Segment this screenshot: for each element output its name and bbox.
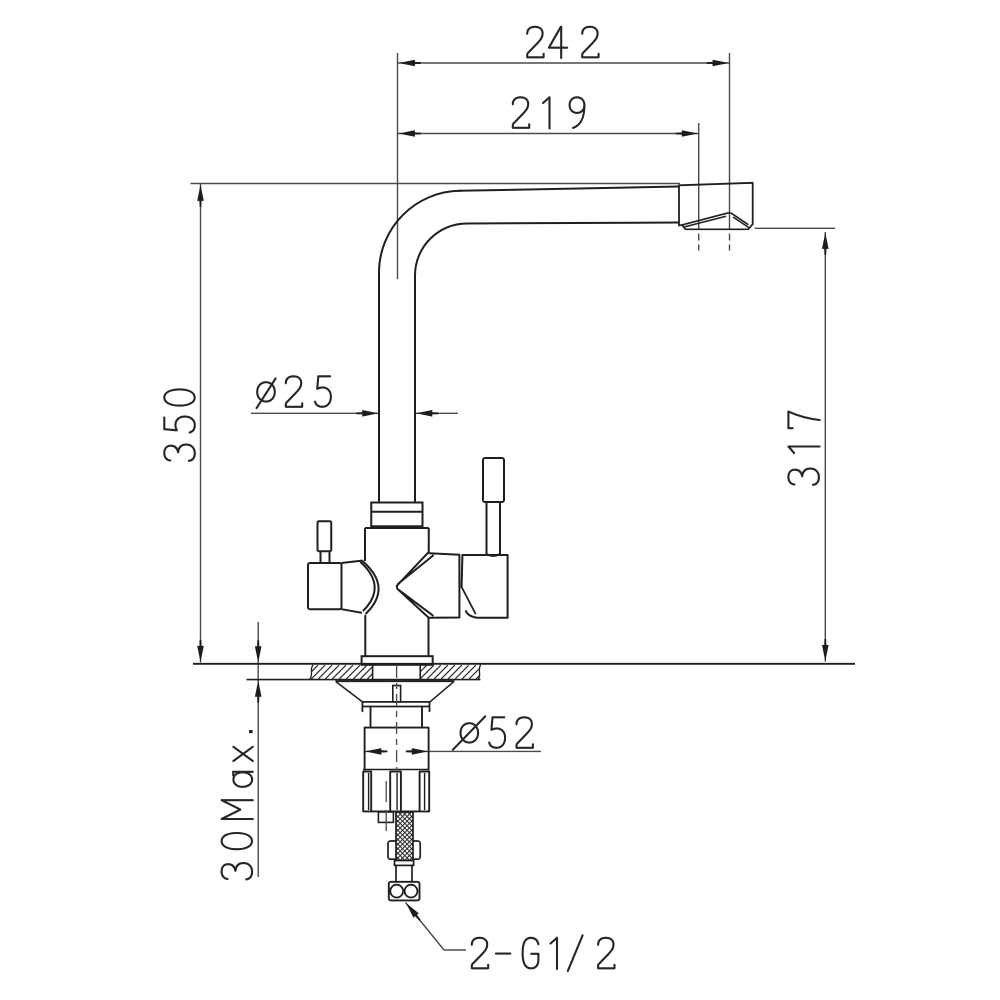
dimension text 2-G1/2	[472, 935, 615, 971]
main centerline	[396, 666, 398, 770]
right handle lever	[483, 458, 504, 502]
spout head ridge	[682, 213, 748, 225]
dimension text o52	[461, 717, 533, 748]
body left edge lower	[364, 615, 366, 656]
right handle body	[462, 555, 508, 618]
mounting flange left diagonal	[336, 682, 363, 702]
dimension text 30Max.	[222, 730, 253, 879]
counter hatch right break edge	[479, 665, 481, 679]
right boss chevron lower	[397, 586, 433, 618]
counter hatch left	[311, 665, 318, 672]
left handle bottom slant	[342, 609, 363, 613]
riser pipe right edge	[414, 276, 416, 503]
center stud	[393, 686, 401, 702]
castle nut	[363, 772, 371, 812]
collar	[371, 503, 422, 527]
mounting bracket	[362, 702, 429, 712]
body right edge upper	[428, 528, 430, 552]
spout bottom line	[467, 223, 679, 224]
dimension 219 line	[398, 133, 699, 135]
shank cylinder	[365, 728, 429, 770]
shank cylinder bottom	[363, 769, 430, 771]
riser pipe left edge	[378, 273, 380, 503]
hose connector right circle	[405, 885, 418, 898]
spout outer curve	[379, 191, 461, 273]
dimension text 317	[788, 412, 819, 485]
mounting flange line	[335, 680, 454, 682]
dimension 242 extension line right	[729, 53, 731, 230]
hose connector left circle	[390, 885, 403, 898]
mounting flange right diagonal	[430, 682, 454, 702]
side hose stub	[378, 812, 393, 822]
counter hatch right	[420, 665, 427, 672]
counter hatch left break edge	[310, 665, 313, 679]
dimension 317 extension line top	[755, 227, 836, 229]
stub centerline	[385, 781, 387, 836]
left handle stem	[321, 551, 330, 563]
o52 slash extension	[453, 716, 485, 749]
dimension o25 line left	[251, 412, 379, 414]
spout head centerline dashes	[698, 234, 700, 251]
counter hole walls	[372, 665, 374, 680]
left boss outer curve	[362, 561, 379, 614]
body left edge upper	[364, 528, 366, 561]
braided hose	[396, 812, 413, 860]
escutcheon	[362, 656, 433, 665]
hose hex fitting	[388, 841, 420, 859]
left boss inner curve	[361, 563, 375, 611]
right handle stem	[487, 502, 501, 556]
counter bottom line	[247, 679, 481, 681]
dimension o25 line right	[416, 412, 459, 414]
dimension text 219	[513, 97, 585, 128]
dimension 350 extension line top	[191, 183, 681, 185]
spout top line	[459, 187, 679, 191]
spout head outline	[679, 183, 753, 226]
right boss outline	[429, 553, 459, 618]
spout head ridge inner right	[734, 217, 749, 227]
dimension text 242	[527, 27, 598, 58]
hose ferrule	[395, 860, 414, 865]
hose connectors block	[389, 882, 420, 901]
counter top line	[193, 663, 855, 665]
dimension 242 line	[398, 62, 729, 64]
spout head aerator wedge	[679, 225, 752, 230]
dimension 350 line	[200, 184, 202, 663]
right handle inner line	[462, 587, 476, 614]
dimension text o25	[257, 376, 331, 408]
dimension text 350	[164, 389, 195, 461]
dimension 30Max line	[257, 622, 259, 877]
spout inner curve	[415, 224, 467, 276]
spout head ridge inner left	[684, 216, 726, 227]
left handle cap	[308, 563, 342, 609]
body top edge	[365, 527, 429, 529]
dimension 242 extension line left	[397, 53, 399, 279]
hose tube	[396, 865, 412, 881]
dimension 219 extension line right	[698, 123, 700, 230]
left handle lever	[318, 521, 332, 551]
dimension o52 line	[429, 750, 541, 752]
dimension 317 line	[824, 232, 826, 662]
leader line 2-G1/2	[406, 903, 445, 951]
body right edge lower	[428, 618, 430, 657]
shank tube	[371, 707, 423, 728]
right boss chevron upper	[397, 552, 433, 585]
left handle top slant	[342, 561, 363, 563]
